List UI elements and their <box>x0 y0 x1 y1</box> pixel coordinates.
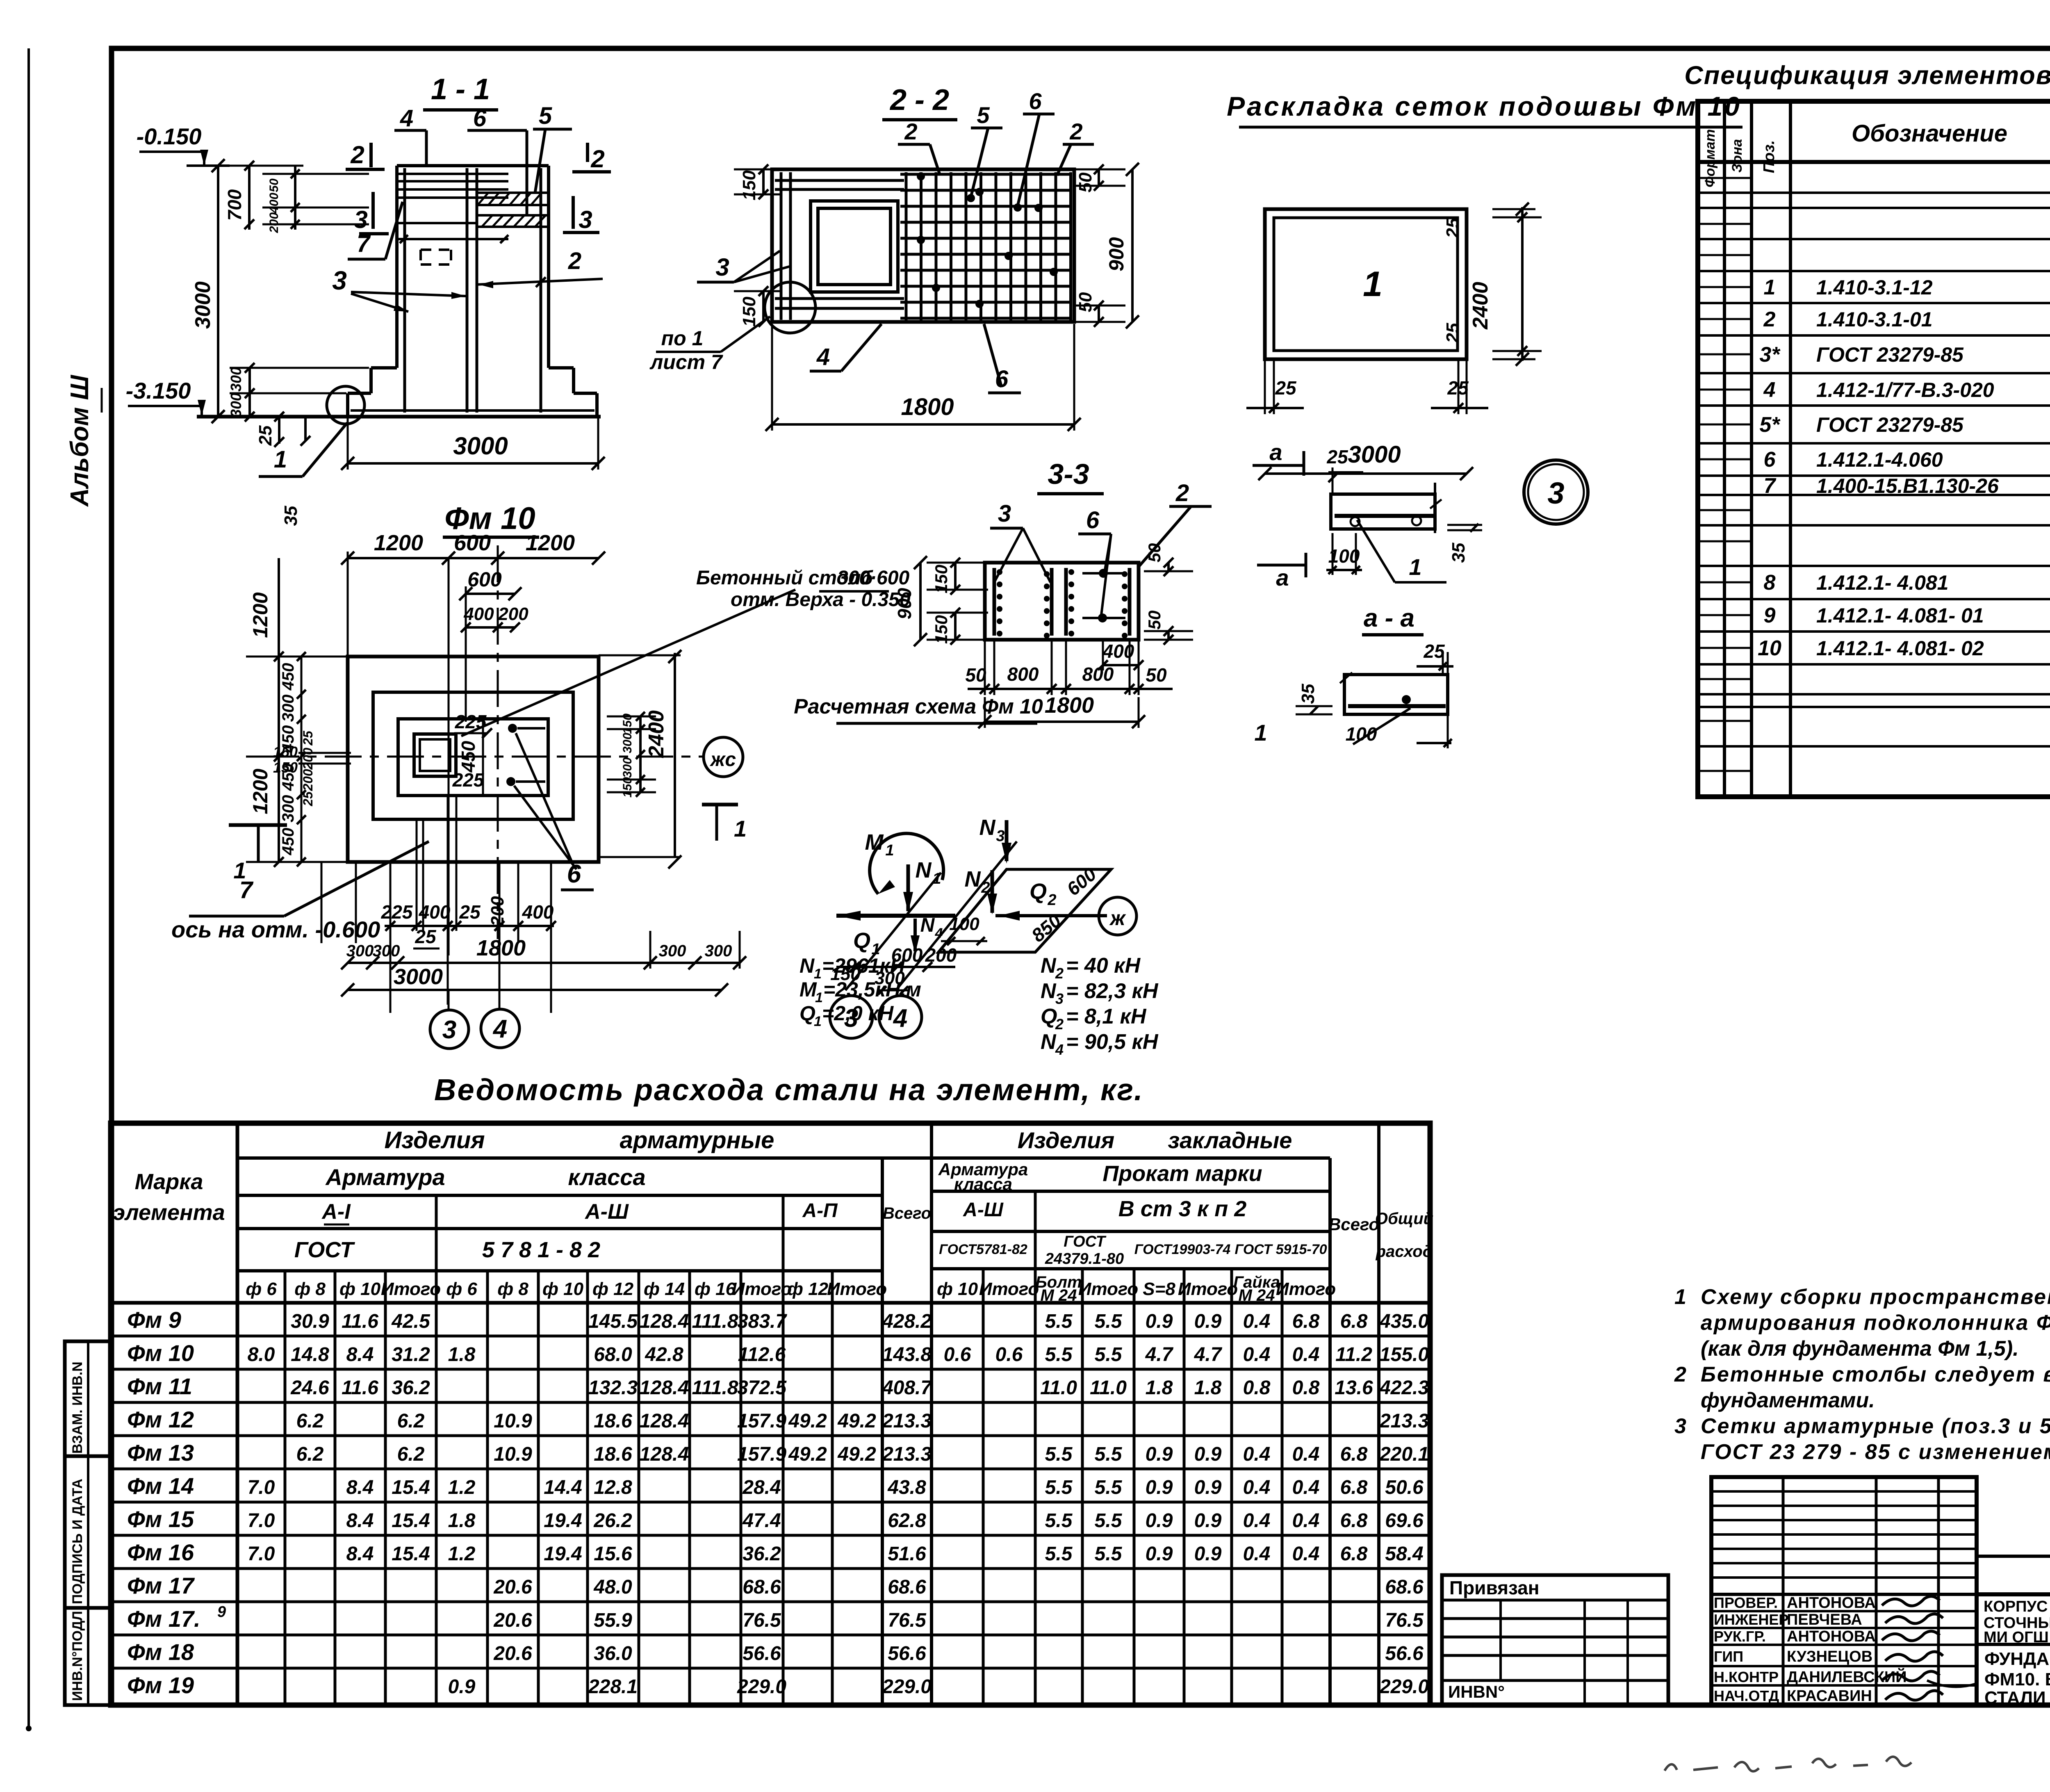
plan right rotated dims 150/300/300/150 <box>639 716 642 792</box>
svg-text:9: 9 <box>1764 604 1776 627</box>
plan middle step rectangle <box>373 692 573 819</box>
detail a-a anchor bar bottom <box>1348 704 1446 708</box>
svg-text:56.6: 56.6 <box>888 1643 926 1664</box>
svg-text:жс: жс <box>709 749 736 771</box>
svg-text:76.5: 76.5 <box>888 1610 927 1631</box>
svg-text:=23,5кН.м: =23,5кН.м <box>823 978 921 1001</box>
svg-text:N: N <box>1041 979 1057 1003</box>
bars crossing slab <box>403 393 406 413</box>
svg-text:0.9: 0.9 <box>448 1676 476 1698</box>
svg-text:10: 10 <box>1758 636 1781 660</box>
svg-text:ф 12: ф 12 <box>787 1279 829 1299</box>
svg-text:Фм 17.: Фм 17. <box>127 1606 200 1632</box>
svg-text:19.4: 19.4 <box>544 1510 582 1532</box>
2-2 dim 50 bottom right <box>1098 306 1100 322</box>
svg-text:150: 150 <box>739 170 759 201</box>
svg-text:3000: 3000 <box>1348 441 1401 468</box>
svg-text:300: 300 <box>659 942 686 960</box>
svg-text:0.4: 0.4 <box>1243 1443 1271 1465</box>
svg-text:ф 16: ф 16 <box>695 1279 736 1299</box>
left rotated dims 300/300 at foundation <box>248 368 251 417</box>
svg-text:N: N <box>965 867 981 891</box>
plan left rotated dims 450/300/450 upper <box>301 657 303 862</box>
svg-text:ГОСТ: ГОСТ <box>294 1238 355 1262</box>
stamp left attach table <box>1442 1575 1668 1705</box>
schema axis circles 3 and 4 <box>830 996 872 1038</box>
svg-text:229.0: 229.0 <box>737 1676 786 1698</box>
svg-text:ГОСТ19903-74: ГОСТ19903-74 <box>1134 1242 1231 1257</box>
svg-text:1.2: 1.2 <box>448 1477 476 1498</box>
svg-text:35: 35 <box>1449 543 1469 563</box>
svg-text:ПЕВЧЕВА: ПЕВЧЕВА <box>1787 1611 1862 1628</box>
svg-text:2: 2 <box>568 248 581 274</box>
svg-text:18.6: 18.6 <box>594 1443 632 1465</box>
svg-text:а - а: а - а <box>1364 604 1414 632</box>
svg-text:300: 300 <box>279 795 297 823</box>
plan section mark 1 left <box>229 823 287 827</box>
svg-text:ж: ж <box>1109 907 1126 930</box>
svg-text:300: 300 <box>373 942 400 960</box>
schema bottom dim line 150/600/200 <box>836 966 955 968</box>
svg-text:НАЧ.ОТД: НАЧ.ОТД <box>1714 1687 1779 1704</box>
svg-text:4.7: 4.7 <box>1194 1344 1223 1366</box>
svg-text:50: 50 <box>1146 664 1167 686</box>
svg-text:1.8: 1.8 <box>448 1510 476 1532</box>
svg-text:100: 100 <box>949 914 979 934</box>
ground base line <box>197 415 601 419</box>
svg-text:25: 25 <box>1443 218 1463 238</box>
schema moment arc M1 <box>870 833 943 894</box>
detail a upper plate <box>1331 494 1435 529</box>
schema plate parallelogram <box>938 869 1111 952</box>
svg-text:А-П: А-П <box>802 1200 838 1222</box>
svg-text:4: 4 <box>492 1015 507 1043</box>
svg-text:Арматура: Арматура <box>325 1164 445 1190</box>
svg-text:1 - 1: 1 - 1 <box>431 73 490 106</box>
svg-text:ф 10: ф 10 <box>542 1279 584 1299</box>
svg-text:7.0: 7.0 <box>248 1510 275 1532</box>
svg-text:157.9: 157.9 <box>737 1443 786 1465</box>
svg-text:1.410-3.1-01: 1.410-3.1-01 <box>1816 308 1933 331</box>
svg-text:0.4: 0.4 <box>1292 1543 1320 1565</box>
svg-text:2: 2 <box>1175 480 1189 506</box>
3-3 embed dots poz 6 <box>1099 569 1108 578</box>
svg-text:лист 7: лист 7 <box>649 351 723 374</box>
svg-text:2400: 2400 <box>645 710 668 758</box>
svg-text:200: 200 <box>925 944 957 966</box>
svg-text:4: 4 <box>1763 378 1776 402</box>
svg-text:112.6: 112.6 <box>738 1344 786 1366</box>
raskladka dim 3000 bottom <box>1265 472 1467 475</box>
slab inner mesh line poz.1 <box>351 409 594 412</box>
svg-text:0.4: 0.4 <box>1243 1543 1271 1565</box>
svg-text:58.4: 58.4 <box>1385 1543 1423 1565</box>
svg-text:43.8: 43.8 <box>887 1477 926 1498</box>
svg-text:1: 1 <box>1409 554 1421 580</box>
svg-text:400: 400 <box>463 604 494 624</box>
svg-text:14.8: 14.8 <box>291 1344 329 1366</box>
svg-text:7: 7 <box>239 877 254 903</box>
svg-text:ПРОВЕР.: ПРОВЕР. <box>1714 1594 1778 1611</box>
schema main left force arrow <box>836 914 955 918</box>
stamp signature table columns <box>1782 1477 1785 1705</box>
svg-text:1: 1 <box>734 816 747 841</box>
schema axis 3 diagonal <box>845 873 941 990</box>
3-3 bottom dim row 50/800/800/50 <box>968 688 1173 690</box>
svg-text:1: 1 <box>932 870 941 887</box>
svg-text:213.3: 213.3 <box>1379 1410 1429 1432</box>
2-2 bottom horizontal bar pair <box>775 297 904 300</box>
svg-text:ф 10: ф 10 <box>937 1279 978 1299</box>
svg-text:11.6: 11.6 <box>342 1311 378 1332</box>
svg-text:300: 300 <box>279 695 297 722</box>
2-2 dim 150 top left <box>762 169 765 194</box>
column middle reinforcement bars <box>466 168 469 413</box>
svg-text:3-3: 3-3 <box>1048 458 1089 490</box>
svg-text:5.5: 5.5 <box>1045 1477 1073 1498</box>
spec table header bottom line <box>1698 160 2050 164</box>
svg-text:Фм 17: Фм 17 <box>127 1573 195 1598</box>
spec table column lines <box>1723 101 1726 797</box>
svg-text:35: 35 <box>281 506 301 526</box>
svg-text:5.5: 5.5 <box>1095 1543 1123 1565</box>
svg-text:расход: расход <box>1376 1243 1433 1261</box>
svg-text:АНТОНОВА: АНТОНОВА <box>1787 1594 1876 1612</box>
svg-text:А-Ш: А-Ш <box>963 1199 1004 1221</box>
svg-text:128.4: 128.4 <box>640 1410 689 1432</box>
svg-text:143.8: 143.8 <box>882 1344 932 1366</box>
svg-text:1: 1 <box>1764 276 1776 299</box>
svg-text:1: 1 <box>885 842 894 859</box>
svg-text:1.412.1- 4.081- 02: 1.412.1- 4.081- 02 <box>1816 637 1984 660</box>
vedomost header band lines <box>237 1156 1330 1160</box>
svg-text:800: 800 <box>1007 663 1039 685</box>
svg-text:(как для фундамента Фм 1,5).: (как для фундамента Фм 1,5). <box>1701 1337 2019 1361</box>
svg-text:600: 600 <box>454 531 491 555</box>
svg-text:5.5: 5.5 <box>1095 1510 1123 1532</box>
2-2 dim 900 right <box>1131 169 1134 322</box>
plan axis horizontal centerline <box>262 756 704 758</box>
svg-text:213.3: 213.3 <box>882 1443 932 1465</box>
svg-text:128.4: 128.4 <box>640 1443 689 1465</box>
svg-text:10.9: 10.9 <box>494 1410 532 1432</box>
svg-text:76.5: 76.5 <box>1385 1610 1424 1631</box>
schema axis circle ж <box>1099 897 1137 935</box>
svg-text:ф 8: ф 8 <box>497 1279 528 1299</box>
plan podkolonnik rectangle <box>398 719 548 796</box>
svg-text:ф 12: ф 12 <box>592 1279 634 1299</box>
svg-text:6: 6 <box>1086 507 1100 533</box>
svg-text:150: 150 <box>621 777 634 798</box>
svg-text:200: 200 <box>267 212 281 233</box>
svg-text:1200: 1200 <box>249 768 272 814</box>
svg-text:= 40 кН: = 40 кН <box>1066 954 1141 978</box>
svg-text:49.2: 49.2 <box>837 1443 876 1465</box>
2-2 left vertical bar pair <box>780 172 783 320</box>
svg-text:51.6: 51.6 <box>888 1543 926 1565</box>
svg-text:1.2: 1.2 <box>448 1543 476 1565</box>
svg-text:-3.150: -3.150 <box>126 378 191 404</box>
svg-text:26.2: 26.2 <box>593 1510 632 1532</box>
svg-text:800: 800 <box>1082 663 1114 685</box>
svg-text:Спецификация элементов монол: Спецификация элементов монолитных фундам… <box>1684 61 2050 90</box>
3-3 dim 150 left top <box>954 563 957 590</box>
svg-text:1.8: 1.8 <box>1194 1377 1222 1399</box>
svg-text:4: 4 <box>816 344 830 370</box>
svg-text:1.412.1-4.060: 1.412.1-4.060 <box>1816 448 1943 471</box>
svg-text:35: 35 <box>1298 684 1318 704</box>
vedomost vertical lines <box>236 1123 239 1705</box>
svg-text:А-Ш: А-Ш <box>584 1200 629 1224</box>
svg-text:ф 8: ф 8 <box>294 1279 326 1299</box>
svg-text:1.412-1/77-В.3-020: 1.412-1/77-В.3-020 <box>1816 378 1994 401</box>
svg-text:ВЗАМ. ИНВ.N: ВЗАМ. ИНВ.N <box>70 1361 85 1454</box>
svg-text:В ст 3 к п 2: В ст 3 к п 2 <box>1118 1197 1246 1221</box>
svg-text:7.0: 7.0 <box>248 1477 275 1498</box>
svg-text:6: 6 <box>473 105 487 132</box>
svg-text:200: 200 <box>301 748 315 770</box>
svg-text:1: 1 <box>814 1014 822 1029</box>
svg-text:300: 300 <box>346 942 374 960</box>
svg-text:14.4: 14.4 <box>544 1477 582 1498</box>
spec table horizontal row lines <box>1698 192 2050 194</box>
svg-text:ф 10: ф 10 <box>339 1279 381 1299</box>
stamp big doc number cell <box>1975 1477 1979 1705</box>
svg-text:РУК.ГР.: РУК.ГР. <box>1714 1628 1766 1645</box>
svg-text:класса: класса <box>568 1164 645 1190</box>
svg-text:3000: 3000 <box>191 281 215 329</box>
svg-text:5.5: 5.5 <box>1045 1311 1073 1332</box>
column inner face lines <box>403 168 406 413</box>
svg-text:100: 100 <box>1346 723 1377 745</box>
svg-text:3000: 3000 <box>453 432 508 460</box>
plan bottom extension lines <box>321 862 323 943</box>
svg-text:157.9: 157.9 <box>737 1410 786 1432</box>
svg-text:42.8: 42.8 <box>645 1344 683 1366</box>
section 1-1 column outline <box>397 164 549 167</box>
svg-text:3: 3 <box>996 828 1004 845</box>
svg-text:Обозначение: Обозначение <box>1852 120 2007 147</box>
svg-text:1: 1 <box>274 446 287 473</box>
detail a-a stud dot <box>1402 695 1411 704</box>
svg-text:1.8: 1.8 <box>448 1344 476 1366</box>
svg-text:50: 50 <box>1075 292 1096 312</box>
svg-text:Q: Q <box>1041 1005 1057 1028</box>
svg-text:2400: 2400 <box>1469 282 1492 330</box>
svg-text:300·600: 300·600 <box>837 567 909 589</box>
svg-text:600: 600 <box>467 568 502 591</box>
svg-text:1: 1 <box>1674 1285 1686 1309</box>
svg-text:0.9: 0.9 <box>1194 1543 1222 1565</box>
svg-text:0.8: 0.8 <box>1243 1377 1271 1399</box>
svg-text:2: 2 <box>590 145 604 173</box>
svg-text:24.6: 24.6 <box>290 1377 329 1399</box>
svg-text:Итого: Итого <box>732 1279 792 1299</box>
3-3 dim 150 left bottom <box>954 613 957 640</box>
svg-text:Итого: Итого <box>1276 1279 1336 1299</box>
svg-text:213.3: 213.3 <box>882 1410 932 1432</box>
svg-text:30.9: 30.9 <box>291 1311 329 1332</box>
svg-text:62.8: 62.8 <box>888 1510 926 1532</box>
svg-text:1.410-3.1-12: 1.410-3.1-12 <box>1816 276 1933 299</box>
svg-text:-0.150: -0.150 <box>137 123 202 149</box>
svg-text:N: N <box>1041 1030 1057 1054</box>
svg-text:ф 14: ф 14 <box>644 1279 685 1299</box>
svg-text:4: 4 <box>935 926 943 941</box>
plan bottom dim row 300/300 1800 300/300 <box>348 962 740 964</box>
svg-text:6.8: 6.8 <box>1340 1477 1368 1498</box>
svg-text:Фм 11: Фм 11 <box>127 1373 192 1399</box>
svg-text:700: 700 <box>224 189 245 221</box>
svg-text:ф 6: ф 6 <box>446 1279 477 1299</box>
svg-text:N: N <box>916 858 932 882</box>
detail a upper anchor bar <box>1335 514 1433 518</box>
svg-text:0.4: 0.4 <box>1292 1510 1320 1532</box>
svg-text:36.0: 36.0 <box>594 1643 632 1664</box>
svg-text:Фм 16: Фм 16 <box>127 1539 194 1565</box>
svg-text:3: 3 <box>579 206 592 233</box>
svg-text:1.412.1- 4.081- 01: 1.412.1- 4.081- 01 <box>1816 604 1984 627</box>
svg-text:6: 6 <box>1029 88 1042 114</box>
svg-text:5.5: 5.5 <box>1045 1510 1073 1532</box>
plan concrete post double rectangle <box>414 734 456 776</box>
svg-text:50: 50 <box>1145 611 1164 630</box>
svg-text:2: 2 <box>1674 1363 1686 1386</box>
svg-text:6.2: 6.2 <box>397 1410 425 1432</box>
svg-text:128.4: 128.4 <box>640 1377 689 1399</box>
2-2 mesh horizontal bars <box>900 173 1071 176</box>
vedomost outer box <box>111 1123 1430 1705</box>
svg-text:3: 3 <box>715 253 729 281</box>
stamp signature squiggles <box>1882 1596 1940 1606</box>
svg-text:7.0: 7.0 <box>248 1543 275 1565</box>
page frame outer left edge line <box>27 48 30 1728</box>
column top mesh horizontals <box>399 173 508 175</box>
svg-text:Н.КОНТР: Н.КОНТР <box>1714 1669 1779 1685</box>
svg-text:0.9: 0.9 <box>1194 1311 1222 1332</box>
plan section mark 1 right <box>702 803 738 807</box>
schema axis 4 diagonal <box>896 841 1017 990</box>
svg-text:0.4: 0.4 <box>1243 1510 1271 1532</box>
svg-text:20.6: 20.6 <box>493 1643 532 1664</box>
svg-text:400: 400 <box>522 901 554 923</box>
svg-text:а: а <box>1269 439 1282 465</box>
3-3 dim 400 bottom <box>1103 664 1139 666</box>
svg-text:383.7: 383.7 <box>737 1311 787 1332</box>
3-3 reinforcement bar 2 <box>1050 568 1054 636</box>
svg-text:5: 5 <box>539 103 552 129</box>
svg-text:3*: 3* <box>1759 343 1781 367</box>
stamp signature data rows <box>1711 1610 1977 1612</box>
svg-text:Альбом Ш: Альбом Ш <box>66 374 94 507</box>
schema force N4 small <box>913 919 917 951</box>
svg-text:Поз.: Поз. <box>1761 140 1778 173</box>
svg-text:Q: Q <box>799 1002 815 1025</box>
stamp signature table outer <box>1711 1477 1977 1705</box>
2-2 top horizontal bar pair <box>775 179 904 182</box>
svg-text:Зона: Зона <box>1729 139 1745 173</box>
svg-text:КРАСАВИН: КРАСАВИН <box>1787 1687 1872 1705</box>
3-3 dim 50 right top <box>1167 563 1170 571</box>
svg-text:= 82,3 кН: = 82,3 кН <box>1066 979 1159 1003</box>
svg-text:М 24: М 24 <box>1041 1286 1077 1304</box>
svg-text:68.0: 68.0 <box>594 1344 632 1366</box>
svg-text:50: 50 <box>1075 172 1096 192</box>
plan bottom dim 3000 <box>348 989 722 991</box>
2-2 dim 150 bottom left <box>762 291 765 322</box>
svg-text:9: 9 <box>217 1603 226 1621</box>
svg-text:0.9: 0.9 <box>1146 1443 1173 1465</box>
svg-text:N: N <box>920 914 935 936</box>
svg-text:5.5: 5.5 <box>1045 1443 1073 1465</box>
svg-text:2: 2 <box>1055 1016 1064 1033</box>
svg-text:= 90,5 кН: = 90,5 кН <box>1066 1030 1159 1054</box>
svg-text:900: 900 <box>1105 237 1128 271</box>
svg-text:24379.1-80: 24379.1-80 <box>1045 1250 1124 1268</box>
svg-text:Бетонные столбы следует вып: Бетонные столбы следует выполнять в одно… <box>1701 1363 2050 1386</box>
plan dim 2400 right <box>674 653 676 856</box>
svg-text:36.2: 36.2 <box>392 1377 430 1399</box>
dashed box embedded part 7 <box>421 249 451 251</box>
svg-text:3000: 3000 <box>394 964 443 989</box>
svg-text:N: N <box>799 954 815 977</box>
svg-text:армирования подколонника Фм 10: армирования подколонника Фм 10 см. лист … <box>1701 1311 2050 1335</box>
foundation middle step <box>371 366 397 369</box>
svg-text:400: 400 <box>267 193 281 214</box>
svg-text:55.9: 55.9 <box>594 1610 632 1631</box>
svg-text:0.4: 0.4 <box>1292 1344 1320 1366</box>
left margin stamp strip boxes <box>65 1341 112 1705</box>
svg-text:15.4: 15.4 <box>392 1477 430 1498</box>
svg-text:0.9: 0.9 <box>1146 1311 1173 1332</box>
svg-text:8.0: 8.0 <box>248 1344 275 1366</box>
3-3 reinforcement bar 4 <box>1128 568 1132 636</box>
svg-text:68.6: 68.6 <box>888 1576 926 1598</box>
svg-text:закладные: закладные <box>1168 1127 1292 1153</box>
svg-text:5.5: 5.5 <box>1095 1477 1123 1498</box>
svg-text:225: 225 <box>452 769 485 791</box>
schema node2 force N2 <box>991 870 994 913</box>
svg-text:0.6: 0.6 <box>995 1344 1023 1366</box>
svg-text:Привязан: Привязан <box>1449 1577 1540 1598</box>
svg-text:3: 3 <box>332 266 347 295</box>
svg-text:5.5: 5.5 <box>1095 1443 1123 1465</box>
svg-text:Фм 14: Фм 14 <box>127 1473 194 1499</box>
svg-text:150: 150 <box>273 759 298 776</box>
svg-text:8.4: 8.4 <box>346 1344 374 1366</box>
svg-text:3: 3 <box>354 206 367 233</box>
section 2-2 slab outline <box>772 169 1074 322</box>
svg-text:6.8: 6.8 <box>1340 1543 1368 1565</box>
svg-text:1.412.1- 4.081: 1.412.1- 4.081 <box>1816 571 1949 594</box>
svg-text:47.4: 47.4 <box>742 1510 781 1532</box>
svg-text:КУЗНЕЦОВ: КУЗНЕЦОВ <box>1787 1648 1872 1665</box>
svg-text:N: N <box>979 815 996 840</box>
svg-text:69.6: 69.6 <box>1385 1510 1424 1532</box>
svg-text:0.9: 0.9 <box>1146 1477 1173 1498</box>
svg-text:0.8: 0.8 <box>1292 1377 1320 1399</box>
svg-text:6.8: 6.8 <box>1340 1443 1368 1465</box>
svg-text:Фм 19: Фм 19 <box>127 1672 194 1698</box>
svg-text:Общий: Общий <box>1375 1210 1433 1228</box>
svg-text:6.8: 6.8 <box>1340 1510 1368 1532</box>
svg-text:Итого: Итого <box>979 1279 1039 1299</box>
svg-text:0.9: 0.9 <box>1146 1510 1173 1532</box>
svg-text:4: 4 <box>1055 1041 1064 1058</box>
svg-text:ПОДПИСЬ И ДАТА: ПОДПИСЬ И ДАТА <box>70 1479 85 1604</box>
svg-text:2: 2 <box>1069 119 1082 144</box>
svg-text:68.6: 68.6 <box>1385 1576 1424 1598</box>
